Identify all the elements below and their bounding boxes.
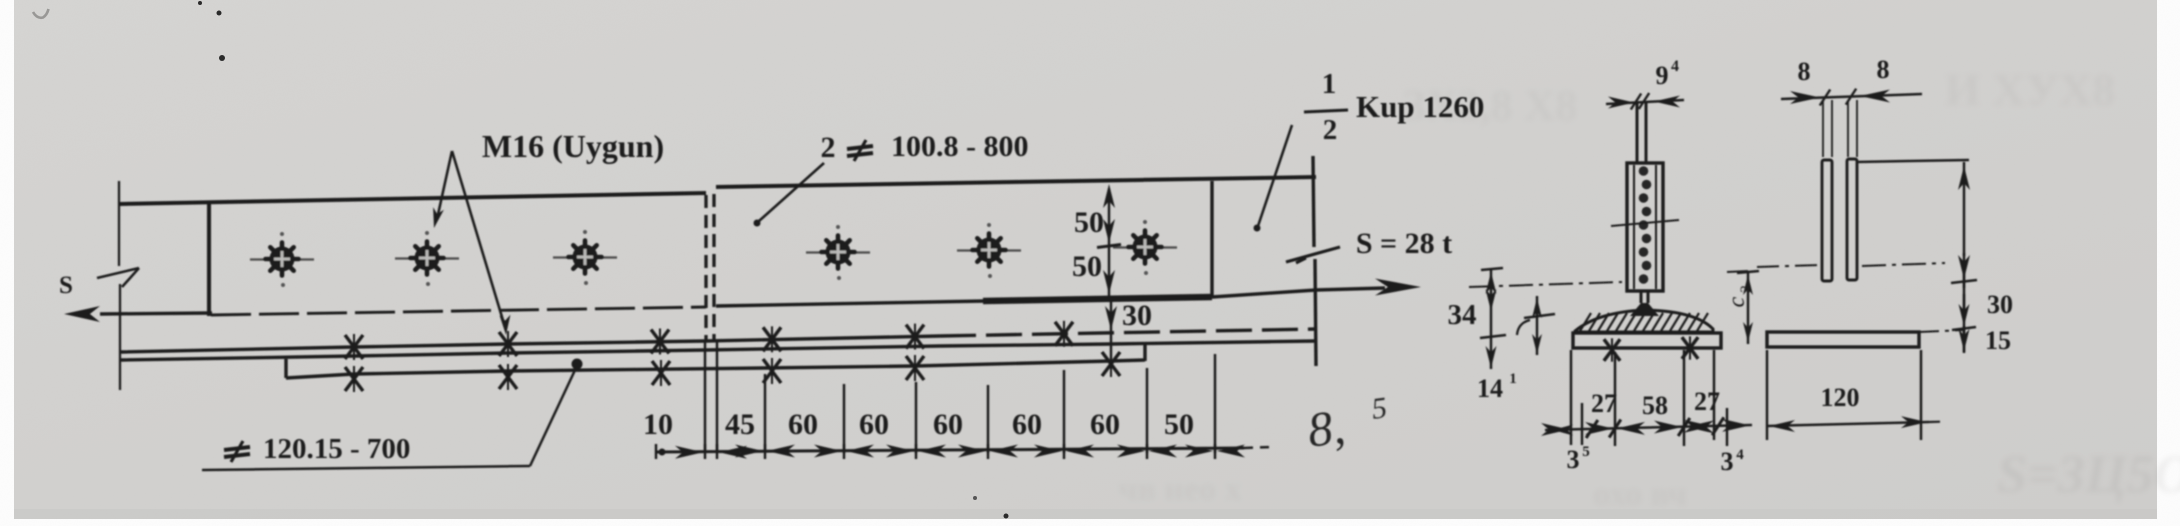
svg-text:И ХУХ8: И ХУХ8 bbox=[1945, 64, 2115, 115]
svg-text:Kup 1260: Kup 1260 bbox=[1356, 89, 1484, 124]
svg-text:8: 8 bbox=[1798, 57, 1811, 86]
svg-text:c: c bbox=[1724, 296, 1750, 307]
svg-text:S=3Ц5О: S=3Ц5О bbox=[1997, 444, 2180, 504]
svg-text:50: 50 bbox=[1072, 250, 1102, 283]
svg-text:1: 1 bbox=[1509, 371, 1517, 387]
svg-text:S: S bbox=[59, 272, 73, 299]
svg-text:2: 2 bbox=[1738, 285, 1754, 293]
svg-text:M16 (Uygun): M16 (Uygun) bbox=[482, 128, 664, 164]
svg-text:60: 60 bbox=[1090, 408, 1120, 441]
svg-text:охо вч: охо вч bbox=[1593, 476, 1687, 513]
svg-text:30: 30 bbox=[1122, 299, 1152, 332]
svg-text:2: 2 bbox=[1323, 114, 1338, 146]
svg-text:58: 58 bbox=[1642, 391, 1668, 420]
svg-text:120: 120 bbox=[1821, 383, 1860, 412]
svg-text:50: 50 bbox=[1164, 408, 1194, 441]
svg-text:3: 3 bbox=[1567, 445, 1580, 474]
svg-text:8: 8 bbox=[1877, 55, 1890, 84]
svg-text:4: 4 bbox=[1671, 58, 1679, 75]
svg-text:15: 15 bbox=[1985, 326, 2011, 355]
svg-text:60: 60 bbox=[933, 408, 963, 441]
svg-text:5: 5 bbox=[1582, 444, 1590, 460]
svg-text:S = 28 t: S = 28 t bbox=[1356, 227, 1452, 260]
svg-text:60: 60 bbox=[1012, 408, 1042, 441]
svg-text:60: 60 bbox=[788, 408, 818, 441]
svg-text:27: 27 bbox=[1591, 389, 1617, 418]
svg-text:45: 45 bbox=[725, 408, 755, 441]
svg-text:50: 50 bbox=[1074, 206, 1104, 239]
svg-text:60: 60 bbox=[859, 408, 889, 441]
svg-text:120.15 - 700: 120.15 - 700 bbox=[263, 433, 410, 465]
svg-text:10: 10 bbox=[643, 408, 673, 441]
svg-text:100.8 - 800: 100.8 - 800 bbox=[891, 130, 1029, 163]
svg-text:1: 1 bbox=[1322, 68, 1337, 100]
svg-text:30: 30 bbox=[1987, 290, 2013, 319]
svg-text:4: 4 bbox=[1736, 447, 1744, 463]
svg-text:14: 14 bbox=[1477, 374, 1503, 403]
svg-text:9: 9 bbox=[1656, 61, 1669, 90]
svg-text:2: 2 bbox=[821, 131, 836, 164]
svg-text:8,: 8, bbox=[1305, 399, 1348, 458]
svg-text:3: 3 bbox=[1721, 447, 1734, 476]
svg-text:27: 27 bbox=[1694, 387, 1720, 416]
svg-text:чв нео х: чв нео х bbox=[1118, 471, 1241, 508]
svg-text:34: 34 bbox=[1448, 299, 1477, 331]
